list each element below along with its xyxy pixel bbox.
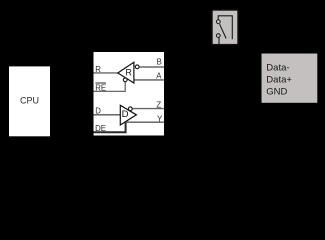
svg-text:RE: RE xyxy=(95,83,106,92)
svg-text:D: D xyxy=(95,106,101,115)
svg-text:DE: DE xyxy=(95,124,106,133)
svg-text:GND: GND xyxy=(266,86,287,97)
svg-text:Data+: Data+ xyxy=(266,74,292,85)
svg-text:R: R xyxy=(126,68,132,78)
svg-text:A: A xyxy=(156,71,162,80)
svg-text:B: B xyxy=(157,58,162,67)
svg-text:Z: Z xyxy=(156,100,161,109)
svg-text:CPU: CPU xyxy=(20,95,39,105)
svg-text:Data-: Data- xyxy=(266,62,289,73)
svg-text:Y: Y xyxy=(157,114,163,123)
svg-text:R: R xyxy=(95,65,101,74)
svg-text:D: D xyxy=(122,109,129,120)
